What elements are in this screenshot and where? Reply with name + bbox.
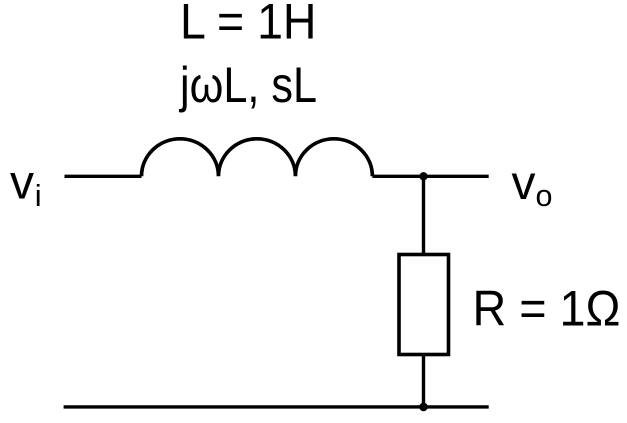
node junction top: [419, 172, 427, 180]
svg-text:L = 1H: L = 1H: [180, 0, 317, 50]
inductor L: [142, 139, 373, 177]
wire top-right from inductor to vo: [372, 175, 488, 178]
svg-text:R = 1Ω: R = 1Ω: [473, 281, 621, 337]
resistor R: [399, 255, 449, 355]
svg-text:jωL, sL: jωL, sL: [178, 57, 317, 113]
wire bottom rail: [64, 405, 489, 408]
svg-text:i: i: [35, 178, 42, 213]
wire vertical resistor to bottom rail: [422, 355, 425, 407]
node junction bottom: [419, 403, 428, 412]
wire vertical junction to resistor: [422, 176, 425, 254]
svg-text:o: o: [536, 179, 553, 213]
wire top-left from vi to inductor: [65, 175, 142, 178]
svg-text:v: v: [10, 156, 34, 209]
svg-text:v: v: [512, 157, 536, 210]
